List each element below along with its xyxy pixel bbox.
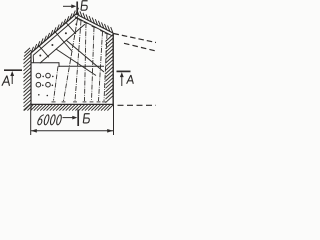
label B bottom xyxy=(83,114,89,123)
ladder inner boundary line xyxy=(40,24,85,63)
charge dot 3 xyxy=(42,85,44,87)
section arrow B top xyxy=(63,5,74,7)
section arrow A left xyxy=(11,74,13,84)
ladder rung 1 xyxy=(38,45,49,57)
hatching inside right wall xyxy=(106,35,114,103)
cell dot 3 xyxy=(65,32,67,34)
top-left slope edge outer line xyxy=(31,14,76,53)
left wall xyxy=(30,53,32,110)
ladder rung 3 xyxy=(65,22,76,34)
charge circle 3 xyxy=(36,82,41,87)
dashed projection line lower xyxy=(118,104,157,106)
section line B bottom xyxy=(77,110,79,127)
long inclined hole b xyxy=(56,49,96,76)
cell dot 2 xyxy=(51,44,53,46)
section line A right xyxy=(117,70,131,72)
cell dot 1 xyxy=(39,55,41,57)
top-left slope edge inner line xyxy=(33,16,78,55)
charge dot 6 xyxy=(47,95,49,97)
dimension text 6000 xyxy=(37,115,62,125)
floor line xyxy=(31,103,114,105)
dimension line 6000 xyxy=(31,130,113,132)
ladder rung 2 xyxy=(55,31,66,43)
mid junction vertical xyxy=(58,62,60,67)
long inclined hole a xyxy=(66,40,104,72)
section line B top xyxy=(76,2,78,15)
hatching above top-right slope edge xyxy=(77,10,113,33)
mid horizontal line right part xyxy=(59,65,104,67)
fan hole 1 xyxy=(62,18,80,102)
dimension extension line left xyxy=(30,110,32,136)
fan hole 3 xyxy=(83,22,89,102)
charge dot 5 xyxy=(38,94,40,96)
label A left xyxy=(2,76,10,86)
label B top xyxy=(81,1,88,10)
top-right slope edge inner line xyxy=(75,17,112,36)
section arrow A right xyxy=(121,75,123,86)
section line A left xyxy=(4,69,22,71)
fan hole 5 xyxy=(97,31,105,102)
cell dot 4 xyxy=(75,23,77,25)
dimension extension line right xyxy=(113,105,115,136)
right wall xyxy=(112,33,114,105)
mid horizontal line left part xyxy=(31,62,59,64)
label A right xyxy=(127,75,134,84)
top-right slope edge outer line xyxy=(76,14,113,33)
charge circle 2 xyxy=(46,73,51,78)
hatching below floor xyxy=(24,105,113,111)
short hole near left xyxy=(52,66,59,102)
fan hole 2 xyxy=(73,20,83,102)
charge dot 1 xyxy=(42,76,44,78)
ladder end connector xyxy=(32,56,34,63)
fan hole 4 xyxy=(90,26,97,102)
fan hole 6 xyxy=(102,33,109,102)
section arrow B bottom xyxy=(63,117,75,119)
charge dot 4 xyxy=(52,85,54,87)
dashed projection ray second xyxy=(124,43,156,51)
ladder rung 2 extension xyxy=(65,43,72,51)
charge dot 2 xyxy=(52,76,54,78)
hatching left of left wall xyxy=(24,48,32,111)
hatching above top-left slope edge xyxy=(31,8,79,53)
dashed projection ray upper xyxy=(114,34,157,43)
charge circle 1 xyxy=(36,73,41,78)
charge circle 4 xyxy=(46,82,51,87)
